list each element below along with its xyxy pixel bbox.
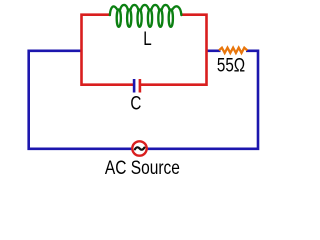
svg-text:AC Source: AC Source: [105, 156, 180, 178]
svg-text:Ω: Ω: [234, 54, 245, 76]
svg-text:L: L: [143, 27, 151, 49]
svg-text:55: 55: [217, 54, 234, 76]
svg-text:C: C: [130, 92, 141, 114]
